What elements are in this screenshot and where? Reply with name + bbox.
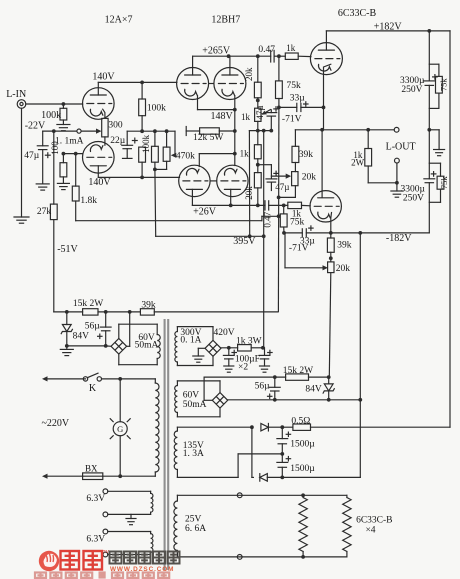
capacitor 22u [126, 131, 128, 145]
svg-text:39k: 39k [337, 241, 352, 251]
resistor 39k bias [140, 309, 154, 315]
triode V4b 12BH7 [217, 165, 248, 196]
resistor 75k bleeder lower [429, 162, 440, 164]
ground under 47u [36, 183, 49, 185]
svg-text:0.47: 0.47 [262, 211, 272, 227]
wire right border rail [449, 31, 451, 427]
svg-text:-71V: -71V [282, 114, 302, 124]
wiper 470k [174, 131, 176, 155]
svg-text:33µ: 33µ [290, 93, 306, 103]
arrow to pot 300 [81, 130, 98, 132]
wire V4a plate lead [191, 189, 193, 205]
svg-text:-51V: -51V [57, 244, 78, 255]
svg-text:1k: 1k [286, 43, 296, 53]
wire heater top [177, 494, 347, 496]
svg-text:27k: 27k [37, 207, 52, 217]
capacitor 100uF b [264, 348, 266, 356]
junction chain branch [257, 159, 259, 165]
pot 20k fb upper [292, 172, 298, 186]
transformer core [164, 319, 166, 570]
wire 6.3V b bottom [108, 554, 151, 556]
wire mains top [45, 378, 86, 380]
resistor 1k grid lower [288, 202, 302, 208]
resistor 75k upper [278, 56, 280, 81]
wiper arrow pot3 [285, 267, 325, 269]
svg-text:100k: 100k [147, 104, 166, 114]
resistor 39k fb upper [294, 130, 296, 147]
wire 420V feed riser [263, 131, 265, 347]
capacitor 33u lower [301, 229, 303, 237]
svg-text:47µ: 47µ [255, 105, 265, 119]
svg-text:1.8k: 1.8k [80, 196, 97, 206]
net 420V wire [221, 347, 238, 349]
wire center tap [237, 454, 239, 478]
svg-text:15k 2W: 15k 2W [283, 366, 313, 376]
svg-text:1k: 1k [241, 112, 251, 122]
wire 33u to cathode [301, 106, 324, 108]
ground zener left [66, 346, 68, 350]
wire V1b plate lead [97, 166, 99, 178]
svg-text:TM: TM [103, 549, 110, 554]
net 395V row [156, 235, 264, 237]
capacitor 56u right [274, 377, 276, 387]
resistor 1k grid upper [285, 53, 298, 59]
wire 100k to row2 [141, 116, 143, 132]
terminal L-OUT ground [395, 158, 400, 163]
wire coupling node lower [269, 204, 288, 206]
capacitor 47u upper [270, 110, 272, 113]
resistor 1k 2W [367, 130, 369, 149]
bridge rectifier B1 [111, 339, 127, 355]
net bias2 lower wire [228, 399, 361, 401]
wire branch to 47u lower [258, 164, 272, 166]
terminal 6.3V b1 [103, 529, 108, 534]
svg-text:22µ: 22µ [110, 136, 126, 146]
heater resistance a [302, 495, 304, 497]
wire V5 cathode lead [324, 64, 331, 107]
wire grid bridge lower [210, 180, 216, 182]
triode V5 6C33C-B [310, 43, 342, 75]
svg-text:148V: 148V [210, 111, 233, 122]
svg-text:-71V: -71V [289, 243, 309, 253]
svg-text:56µ: 56µ [85, 321, 101, 331]
winding 6.3V b [150, 532, 152, 534]
wire D2 row [282, 476, 360, 478]
resistor 100k b [154, 131, 156, 146]
svg-text:1500µ: 1500µ [290, 464, 315, 474]
resistor 15k 2W left [83, 309, 98, 315]
svg-text:25V: 25V [185, 515, 202, 525]
ground L-OUT [396, 183, 398, 191]
triode V6 6C33C-B [310, 191, 341, 222]
wire heater bottom [177, 556, 347, 558]
svg-text:1k 3W: 1k 3W [236, 337, 262, 347]
capacitor 0.47 lower [264, 201, 266, 210]
triode V1a 12AX7 [83, 88, 115, 120]
wire jack to V1 grid [26, 103, 83, 105]
wire V5 plate lead [325, 31, 327, 50]
terminal 6.3V b2 [103, 552, 108, 557]
svg-text:75k: 75k [287, 81, 302, 91]
svg-text:100k: 100k [141, 134, 151, 153]
wire fuse to primary [103, 475, 156, 477]
resistor 15k 2W right [286, 374, 309, 380]
capacitor 56u left [105, 312, 107, 327]
zener 84V right [328, 377, 330, 384]
svg-text:6.3V: 6.3V [86, 494, 105, 504]
triode V3b 12BH7 [214, 68, 246, 100]
capacitor 0.47 upper [270, 50, 272, 62]
junction cathode tee [233, 152, 237, 156]
wire switch to primary [102, 378, 156, 380]
junction output rail [427, 128, 431, 132]
resistor 0.5 ohm [282, 426, 293, 428]
terminal 6.3V a2 [103, 512, 108, 517]
resistor 100k a [139, 147, 146, 162]
svg-text:6. 6A: 6. 6A [185, 524, 206, 534]
wire 1k to V5 grid [298, 55, 311, 57]
svg-text:250V: 250V [401, 85, 422, 95]
wire -182V riser [359, 233, 361, 478]
resistor 75k lower [283, 205, 285, 214]
input jack J1 [17, 100, 26, 109]
neon lamp G [113, 422, 127, 436]
wire V6 plate lead [321, 130, 323, 198]
svg-text:L-IN: L-IN [6, 89, 26, 100]
pot 20k fb lower [328, 262, 334, 273]
svg-text:50mA: 50mA [135, 341, 159, 351]
svg-text:470k: 470k [176, 152, 195, 162]
bridge rectifier B2 [212, 393, 227, 408]
svg-text:75k: 75k [290, 217, 305, 227]
svg-text:0.47: 0.47 [258, 45, 275, 55]
svg-text:47µ: 47µ [275, 182, 289, 192]
capacitor 3300u lower [428, 130, 430, 179]
wire V4b plate lead [230, 189, 232, 205]
svg-text:39k: 39k [141, 300, 156, 310]
wire coupling node upper [274, 55, 285, 57]
wire row y131 [127, 130, 175, 132]
resistor 100k plate load [141, 82, 143, 99]
net -71V node lower [284, 232, 302, 234]
pot 470k [166, 131, 168, 147]
svg-text:140V: 140V [88, 177, 111, 188]
winding 6.3V a [150, 491, 152, 493]
wire -22V node [43, 130, 77, 132]
capacitor 47u lower [266, 178, 277, 180]
capacitor 3300u upper [428, 31, 430, 81]
svg-text:395V: 395V [233, 236, 256, 247]
svg-text:12A×7: 12A×7 [105, 15, 133, 26]
wire lower cathodes [199, 153, 235, 155]
ground 6.3V [130, 514, 132, 518]
capacitor 47u input [42, 131, 44, 146]
svg-text:BX: BX [85, 463, 98, 473]
winding 60V bias right [177, 380, 220, 382]
svg-text:75k: 75k [439, 176, 449, 190]
svg-text:0.5Ω: 0.5Ω [291, 417, 310, 427]
wire 148V down [234, 110, 236, 154]
resistor 1k 3W [238, 345, 252, 351]
wire output riser [323, 107, 325, 129]
net -71V node upper [279, 106, 297, 108]
resistor 39k lower [330, 233, 332, 238]
terminal bar 12k5W [185, 127, 187, 136]
svg-text:G: G [117, 424, 123, 434]
ground under 100k [62, 120, 64, 125]
svg-text:1k: 1k [240, 148, 250, 158]
resistor 1.8k [75, 154, 77, 187]
wire pot3 to zener [329, 273, 331, 378]
svg-text:420V: 420V [213, 328, 234, 338]
svg-text:100: 100 [50, 141, 60, 155]
svg-text:~220V: ~220V [41, 418, 69, 429]
svg-text:140V: 140V [92, 72, 115, 83]
net +182V rail [326, 30, 450, 32]
wire -51V line [53, 131, 55, 204]
wiper arrow pot2 [271, 175, 288, 177]
resistor 1k chain lower [257, 131, 259, 145]
net bias2 upper wire [204, 376, 286, 378]
wire bridge1 ac [118, 324, 120, 338]
terminal L-OUT hot [394, 127, 399, 132]
wire V1a cathode lead [103, 109, 105, 118]
wire 100kb down [154, 169, 157, 236]
resistor 20k chain [257, 56, 259, 82]
ground midpoint [429, 129, 439, 131]
wire pot1 to bias row [257, 121, 259, 130]
capacitor 1500u a [281, 427, 283, 438]
svg-text:84V: 84V [305, 385, 322, 395]
svg-text:+265V: +265V [202, 46, 231, 57]
svg-text:-182V: -182V [386, 233, 412, 244]
wire 6.3V a bottom [108, 513, 151, 515]
winding 135V [177, 426, 252, 428]
svg-text:L-OUT: L-OUT [386, 141, 416, 152]
pot 300 cathode [102, 118, 108, 136]
terminal heater 2 [237, 555, 242, 560]
resistor 20k chain lower [257, 165, 259, 173]
wire 27k to bias row [53, 220, 55, 312]
wire jack ground [21, 108, 23, 217]
svg-text:39k: 39k [299, 150, 314, 160]
svg-text:6C33C-B: 6C33C-B [338, 8, 377, 19]
net -182V row [306, 232, 429, 234]
wire 1k to V6 grid [302, 204, 311, 206]
junction 39k 20k [330, 252, 332, 262]
wire 6.3V a top [108, 490, 151, 492]
winding 60V bias left [156, 324, 158, 334]
fuse BX [83, 473, 103, 480]
resistor 12k 5W [186, 130, 199, 132]
net bias row left [54, 311, 83, 313]
wire V3b plate lead [229, 56, 231, 75]
svg-text:250V: 250V [403, 194, 424, 204]
svg-text:6C33C-B: 6C33C-B [356, 515, 392, 525]
wire V1a plate lead [97, 82, 99, 95]
resistor 75k bleeder upper [429, 63, 439, 65]
svg-text:50mA: 50mA [183, 400, 207, 410]
resistor 100k input [62, 104, 64, 108]
ground under 100 [62, 177, 64, 184]
capacitor 100uF a [228, 348, 230, 356]
zener 84V left [66, 312, 68, 325]
svg-text:300: 300 [108, 121, 123, 131]
wire -71V riser [277, 107, 280, 311]
capacitor 1500u b [281, 454, 283, 463]
terminal heater 1 [237, 493, 242, 498]
svg-text:20k: 20k [244, 67, 254, 81]
wire 300 to V1b cathode [104, 137, 106, 145]
test point circle [77, 129, 81, 133]
svg-text:1500µ: 1500µ [290, 440, 315, 450]
triode V1b 12AX7 [83, 142, 115, 174]
svg-text:-22V: -22V [25, 120, 46, 131]
svg-text:2W: 2W [351, 157, 365, 167]
resistor 27k [50, 204, 57, 220]
svg-text:75k: 75k [438, 78, 448, 92]
svg-text:20k: 20k [336, 264, 351, 274]
winding 25V [176, 495, 178, 501]
diode D1 [261, 423, 269, 431]
wire grid bridge upper [209, 83, 214, 85]
triode V3a 12BH7 [177, 68, 209, 100]
capacitor 33u upper [296, 103, 298, 111]
svg-text:20k: 20k [302, 172, 317, 182]
ground bridge3 [198, 347, 205, 349]
svg-text:×4: ×4 [365, 525, 375, 535]
net +265V rail [193, 55, 271, 57]
triode V4a 12BH7 [179, 165, 210, 196]
svg-text:12BH7: 12BH7 [211, 15, 240, 26]
winding primary [154, 379, 156, 383]
wire V3a plate lead [192, 56, 194, 75]
svg-text:56µ: 56µ [255, 382, 271, 392]
wire 1k2W bottom [368, 182, 397, 184]
svg-text:47µ: 47µ [24, 151, 40, 161]
wire pot2 bottom [294, 186, 296, 198]
pot 1k bias upper [255, 108, 261, 121]
svg-text:84V: 84V [73, 331, 90, 341]
heater resistance b [346, 495, 348, 497]
net output row [295, 129, 394, 131]
switch K [83, 377, 87, 381]
wire V6 cathode lead [330, 213, 333, 233]
wire lamp branch bottom [119, 436, 121, 477]
svg-text:+26V: +26V [193, 206, 217, 217]
ground input jack [14, 216, 29, 218]
winding 300V [177, 326, 213, 328]
wire bridge2 left out [204, 399, 212, 401]
svg-text:6.3V: 6.3V [86, 535, 105, 545]
svg-text:×2: ×2 [238, 362, 248, 372]
svg-text:20k: 20k [244, 186, 254, 200]
wire mains bottom [45, 475, 83, 477]
wiper arrow pot1 [264, 110, 270, 114]
watermark dzsc logo [39, 551, 59, 571]
svg-text:15k 2W: 15k 2W [73, 299, 103, 309]
wire 6.3V b top [108, 531, 151, 533]
svg-text:12k 5W: 12k 5W [193, 133, 223, 143]
wire lamp branch top [119, 379, 121, 422]
svg-text:0. 1A: 0. 1A [180, 335, 201, 345]
net 140V row [98, 81, 177, 83]
svg-text:1. 3A: 1. 3A [183, 449, 204, 459]
svg-text:K: K [89, 383, 97, 394]
wire bridge1 dc [67, 345, 106, 347]
wire feedback 1.8k [75, 201, 77, 221]
net bias row upper [249, 130, 272, 132]
net 148V row [197, 96, 199, 110]
wire 135V right leg [250, 425, 254, 429]
net +26V row [192, 204, 265, 206]
net V1b plate row [98, 176, 179, 178]
bridge rectifier B3 [205, 340, 221, 356]
wire V2 grid [63, 153, 83, 155]
junction 20k pot1 [257, 98, 259, 108]
terminal 6.3V a1 [103, 489, 108, 494]
diode D2 [252, 476, 254, 478]
wire to 395V row [248, 131, 250, 237]
